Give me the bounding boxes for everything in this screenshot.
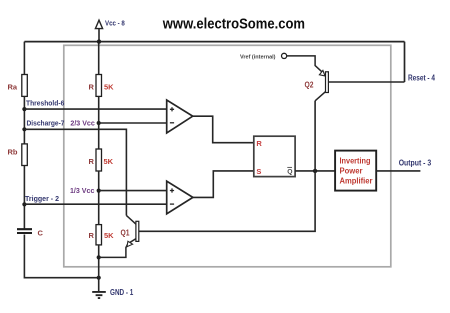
wire R3 to ground — [98, 245, 100, 292]
wire 2/3 Vcc to comparator - — [99, 122, 167, 124]
resistor R3 5K — [96, 225, 102, 245]
svg-text:Vcc - 8: Vcc - 8 — [105, 18, 125, 27]
power symbol Vcc triangle — [95, 20, 102, 28]
Q1 collector diagonal — [126, 216, 136, 225]
svg-text:R: R — [256, 139, 262, 148]
IC boundary (gray box) — [64, 45, 391, 266]
resistor Ra — [22, 75, 28, 97]
svg-text:Power: Power — [340, 167, 363, 176]
node Vcc junction — [97, 39, 101, 43]
svg-text:Output - 3: Output - 3 — [399, 158, 432, 167]
wire discharge to Q1 collector — [24, 129, 126, 215]
svg-text:Trigger - 2: Trigger - 2 — [25, 194, 59, 203]
wire output — [376, 170, 420, 172]
resistor R1 5K — [96, 75, 102, 97]
svg-text:2/3 Vcc: 2/3 Vcc — [70, 119, 94, 128]
Q2 collector diagonal — [315, 92, 326, 101]
wire Vcc stub — [98, 29, 100, 42]
wire left branch upper — [23, 42, 25, 75]
Q1 emitter diagonal with arrow — [99, 239, 136, 258]
wire Ra to Rb — [23, 96, 25, 143]
wire R2 to R3 — [98, 171, 100, 225]
wire reset drop — [404, 42, 406, 82]
resistor Rb — [22, 144, 28, 166]
Q2 emitter arrow — [319, 70, 325, 76]
terminal Vref circle — [282, 53, 287, 58]
wire Rb to capacitor — [23, 166, 25, 230]
resistor R2 5K — [96, 149, 102, 171]
wire comparator2 output to S input — [193, 171, 254, 198]
svg-text:Q: Q — [287, 169, 292, 176]
node 2/3 Vcc junction — [97, 121, 101, 125]
node threshold junction — [22, 107, 26, 111]
svg-text:Reset - 4: Reset - 4 — [408, 74, 436, 83]
wire Q2 base to reset — [329, 81, 405, 83]
wire comparator1 output to R input — [193, 116, 254, 143]
svg-text:Vref (internal): Vref (internal) — [240, 54, 276, 60]
node 1/3 Vcc junction — [97, 189, 101, 193]
wire Vcc top rail — [24, 41, 404, 43]
svg-text:www.electroSome.com: www.electroSome.com — [162, 16, 305, 32]
node emitter-gnd junction — [97, 255, 101, 259]
node Qbar junction — [313, 169, 317, 173]
svg-text:R: R — [89, 231, 95, 240]
node trigger junction — [22, 202, 26, 206]
svg-text:R: R — [89, 82, 95, 91]
svg-text:Threshold-6: Threshold-6 — [26, 98, 64, 107]
ground symbol — [92, 292, 106, 298]
flip-flop U1 — [254, 136, 295, 176]
svg-text:S: S — [256, 167, 261, 176]
node discharge junction — [22, 127, 26, 131]
wire Vref to Q2 emitter — [287, 56, 324, 74]
wire capacitor to ground rail — [24, 235, 98, 278]
op-amp comparator 1 (threshold) — [167, 100, 193, 133]
svg-text:Q1: Q1 — [121, 228, 130, 237]
svg-text:5K: 5K — [104, 231, 114, 240]
wire Q2 collector / Q1 base bus — [139, 101, 315, 232]
svg-text:R: R — [89, 157, 95, 166]
wire middle chain top — [98, 42, 100, 75]
block inverting power amplifier — [335, 151, 376, 191]
node cap-gnd junction — [97, 276, 101, 280]
svg-text:5K: 5K — [104, 82, 114, 91]
svg-text:Rb: Rb — [8, 148, 18, 157]
wire Qbar output to amplifier — [295, 170, 335, 172]
svg-text:5K: 5K — [104, 157, 114, 166]
wire R1 to R2 — [98, 96, 100, 149]
transistor Q1 — [136, 221, 139, 241]
svg-text:Discharge-7: Discharge-7 — [27, 119, 65, 128]
transistor Q2 — [326, 72, 329, 93]
svg-text:Amplifier: Amplifier — [340, 177, 373, 186]
svg-text:C: C — [38, 228, 44, 237]
svg-text:Inverting: Inverting — [340, 157, 371, 166]
capacitor C — [17, 229, 32, 233]
svg-text:GND - 1: GND - 1 — [110, 288, 134, 297]
wire 1/3 Vcc to comparator + — [99, 190, 167, 192]
svg-text:Ra: Ra — [8, 82, 18, 91]
svg-text:Q2: Q2 — [305, 80, 314, 89]
op-amp comparator 2 (trigger) — [167, 181, 193, 214]
wire threshold to comparator + — [24, 108, 166, 110]
svg-text:1/3 Vcc: 1/3 Vcc — [70, 186, 94, 195]
wire trigger to comparator - — [24, 203, 166, 205]
